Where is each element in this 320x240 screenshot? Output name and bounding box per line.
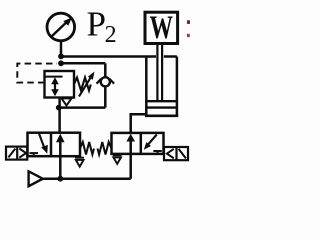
cylinder piston lines [146,101,177,107]
wire rail to valve V2 [129,154,132,179]
node regulator output dot [56,105,62,111]
wire pilot loop right upper [104,63,107,77]
valve V2 solenoid actuator [164,147,188,160]
valve V2 right cell exhaust path arrow [144,135,157,150]
valve V1 spring [80,142,94,155]
valve V1 body [28,133,81,157]
wire pilot loop bottom [59,106,106,109]
red mark 1 (cropped, right edge) [187,20,190,24]
load box W [145,10,178,46]
wire cylinder top right segment [164,55,177,58]
valve V2 blocked port T [153,151,162,154]
red mark 2 (cropped, right edge) [187,34,190,37]
valve V1 solenoid actuator [6,147,27,160]
svg-text:2: 2 [105,22,117,48]
wire supply rail [43,177,131,180]
supply source triangle [29,171,43,186]
pressure regulator box [45,71,75,98]
valve V2 left cell flow arrow [126,134,135,154]
node junction dot 2 [58,60,64,66]
pilot dashed line [17,64,57,83]
pressure gauge P2 [47,13,75,41]
wire supply line to cylinder [61,55,156,58]
valve V2 body [112,133,164,154]
cylinder body [145,57,178,117]
valve V2 spring [98,142,112,155]
wire V1 to supply rail [59,156,62,179]
wire pilot loop top [61,62,105,65]
valve V1 left cell blocked port T [30,153,39,156]
piston rod (two lines) [157,44,162,102]
regulator adjust arrow [79,72,95,97]
svg-text:W: W [149,10,173,46]
valve V1 right cell flow arrow [56,134,65,157]
valve V2 exhaust port [113,154,122,164]
wire pilot loop right lower [104,86,107,107]
regulator internal seat line [45,76,63,78]
wire regulator output down to valve [58,98,61,133]
nozzle circle [97,77,115,86]
regulator double arrow [51,77,59,96]
wire gauge stem [60,41,63,55]
regulator vent triangle [62,98,72,105]
valve V1 left cell exhaust path arrow [39,134,48,154]
label P2 [87,5,117,49]
node supply rail dot [57,176,63,182]
regulator spring [74,78,91,91]
valve V1 exhaust port [75,156,84,166]
node junction dot 1 [58,53,64,59]
svg-text:P: P [87,5,106,44]
wire cylinder to right valve [131,114,147,133]
